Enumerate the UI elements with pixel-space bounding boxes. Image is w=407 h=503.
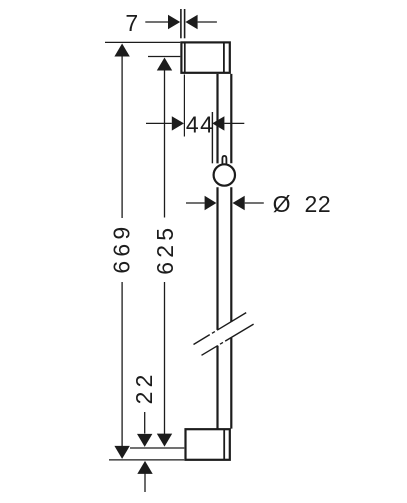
top wall bracket inner line	[223, 43, 225, 72]
svg-text:Ø: Ø	[273, 191, 291, 217]
dimension 44: extension line from flange	[183, 75, 185, 137]
extension line bottom hole centre (625/22 reference)	[130, 447, 184, 449]
dimension 44: left arrowhead	[172, 116, 184, 130]
bottom wall bracket body	[186, 429, 230, 460]
dimension 625: top arrowhead	[157, 58, 172, 71]
dimension 669: top arrowhead	[114, 44, 129, 57]
dimension 669: line upper segment	[121, 56, 123, 218]
extension line bottom of rail (669/22 reference)	[109, 459, 184, 461]
dimension 625: line lower segment	[164, 282, 166, 434]
pipe break line lower	[202, 324, 254, 355]
dimension 22: upper line segment	[144, 412, 146, 434]
slider knob tab	[222, 156, 226, 164]
slider ring	[214, 164, 235, 185]
dimension 669: line lower segment	[121, 282, 123, 446]
rail tube right edge upper segment	[230, 74, 232, 163]
dimension 44: right tail line	[224, 122, 244, 124]
svg-text:669: 669	[108, 223, 134, 274]
svg-text:44: 44	[186, 111, 215, 137]
svg-text:625: 625	[152, 224, 178, 275]
dimension 22: lower tail line	[144, 474, 146, 493]
dimension 7: extension line left	[180, 9, 182, 38]
dimension diameter 22: right arrowhead	[233, 196, 245, 210]
dimension 22: down arrowhead	[137, 434, 152, 447]
svg-text:22: 22	[131, 370, 157, 404]
dimension 44: right arrowhead	[212, 116, 224, 130]
dimension 7: left arrowhead	[168, 15, 180, 29]
dimension 44: extension line from slider face	[211, 112, 213, 163]
extension line top of rail (669 reference)	[105, 41, 180, 43]
dimension diameter 22: left tail line	[186, 202, 205, 204]
rail tube left edge lower segment	[216, 346, 218, 429]
dimension 22: up arrowhead	[137, 461, 152, 474]
dimension 7: left tail line	[145, 21, 168, 23]
dimension 625: bottom arrowhead	[157, 434, 172, 447]
rail tube left edge upper segment	[216, 74, 218, 163]
pipe break line upper	[194, 313, 247, 345]
rail tube right edge middle segment	[230, 187, 232, 322]
extension line top hole centre (625 reference)	[148, 56, 180, 58]
dimension diameter 22: left arrowhead	[205, 196, 217, 210]
dimension diameter 22: right tail line	[245, 202, 264, 204]
dimension 7: right arrowhead	[185, 15, 197, 29]
top wall bracket flange line	[184, 43, 186, 72]
dimension 7: right tail line	[198, 21, 217, 23]
dimension 669: bottom arrowhead	[114, 446, 129, 459]
dimension 625: line upper segment	[164, 70, 166, 218]
dimension 44: left tail line	[146, 122, 172, 124]
rail tube right edge lower segment	[230, 338, 232, 429]
top wall bracket body	[181, 42, 229, 72]
dimension 7: extension line right	[184, 9, 186, 38]
svg-text:22: 22	[305, 191, 332, 217]
bottom wall bracket inner line	[223, 430, 225, 460]
rail tube left edge middle segment	[216, 187, 218, 330]
svg-text:7: 7	[125, 10, 138, 36]
